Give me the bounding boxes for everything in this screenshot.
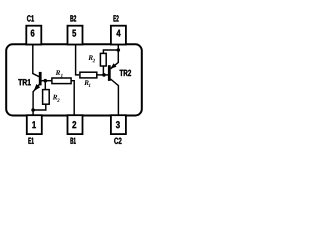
wire: TR1 emitter diagonal — [33, 84, 40, 116]
transistor TR1 base bar — [39, 72, 42, 86]
wire: TR1 base to R1 — [41, 80, 52, 82]
resistor R1 (TR2 base series) — [80, 72, 97, 78]
resistor R1 label (right) — [84, 80, 89, 85]
wire: R1 to TR2 base — [97, 74, 108, 76]
TR2 emitter arrow (PNP, pointing in) — [110, 63, 116, 69]
resistor R2 label (right) — [88, 55, 93, 60]
resistor R2 (TR1 base-emitter) — [43, 90, 50, 105]
pin 2 box — [68, 115, 83, 134]
pin 3 number — [116, 121, 120, 128]
pin label B1 — [71, 138, 76, 144]
pin 6 number — [31, 30, 35, 37]
wire: R1 to pin 2 (B1) — [71, 81, 74, 116]
resistor R1 (TR1 base series) — [52, 78, 71, 84]
resistor R2 (TR2 base-emitter) — [100, 53, 106, 66]
pin label B2 — [70, 15, 76, 21]
wire: R2 bottom to emitter wire — [33, 104, 46, 110]
transistor TR2 label — [120, 70, 131, 76]
pin label E1 — [28, 138, 33, 144]
wire: R2 top to emitter node — [103, 50, 118, 54]
pin 4 box — [111, 26, 126, 45]
TR1 emitter arrow (NPN, pointing out) — [34, 84, 41, 91]
pin label C2 — [114, 138, 121, 144]
pin 3 box — [111, 115, 126, 134]
wire: pin 4 (E2) down to TR2 emitter — [111, 45, 119, 69]
pin 5 box — [68, 26, 83, 45]
pin 4 number — [117, 30, 121, 37]
node: emitter junction dot — [31, 108, 35, 112]
node: TR1 base junction dot — [44, 79, 48, 83]
pin 5 number — [72, 30, 76, 37]
resistor R2 label (left) — [53, 95, 58, 100]
transistor TR2 base bar — [108, 65, 111, 81]
pin 1 box — [27, 115, 42, 134]
package body outline — [6, 44, 142, 115]
wire: pin 6 to TR1 collector — [33, 45, 40, 77]
resistor R1 label (left) — [56, 70, 61, 75]
node: TR2 emitter junction dot — [117, 48, 121, 52]
pin label C1 — [27, 15, 34, 21]
pin label E2 — [114, 15, 119, 21]
wire: base junction up to R2 — [102, 66, 104, 75]
pin 1 number — [32, 121, 36, 128]
transistor TR1 label — [18, 79, 31, 85]
wire: TR2 collector to pin 3 — [111, 79, 119, 116]
pin 6 box — [26, 26, 41, 45]
node: TR2 base junction dot — [102, 73, 106, 77]
pin 2 number — [72, 121, 76, 128]
wire: base junction down to R2 — [44, 81, 46, 90]
wire: pin 5 (B2) down and to R1 — [76, 45, 80, 75]
